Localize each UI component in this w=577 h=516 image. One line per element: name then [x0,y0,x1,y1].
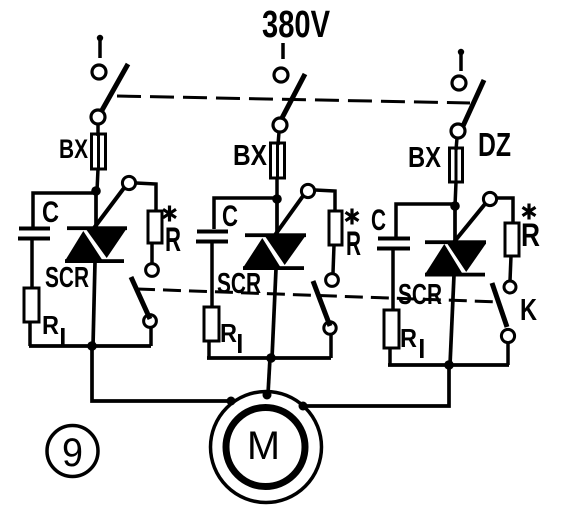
svg-text:BX: BX [233,140,268,172]
knife switch hinge contact (phase 3) [451,124,465,138]
wire: capacitor to resistor Rl (phase 2) [210,243,214,307]
svg-text:DZ: DZ [478,126,511,163]
svg-text:R: R [42,310,59,340]
asterisk mark (phase 1) [163,206,176,222]
svg-text:R: R [521,217,540,253]
svg-text:K: K [520,292,537,327]
fuse BX (phase 2) [271,143,285,178]
fuse BX (phase 1) [92,134,106,169]
wire: capacitor to resistor Rl (phase 1) [30,240,34,288]
wire: switch to bottom rail (phase 2) [329,334,333,358]
knife switch fixed contact (phase 2) [274,68,288,82]
wire: switch to bottom rail (phase 3) [506,343,510,365]
label Rl (phase 2) [220,318,242,353]
resistor R* (phase 1) [148,211,162,243]
svg-text:C: C [42,196,59,229]
wire: switch to fuse (phase 3) [456,138,457,150]
switch hinge circle K (phase 3) [501,329,514,342]
asterisk mark (phase 2) [346,209,359,225]
switch blade (phase 1 gate switch) [131,277,150,319]
wire: resistor R to contact (phase 3) [510,256,511,281]
svg-text:R: R [165,221,181,259]
gate terminal circle (phase 1) [122,176,135,189]
switch hinge circle (phase 1 gate switch) [144,315,157,328]
label Rl (phase 3) [400,323,424,358]
resistor R* (phase 3) [505,223,519,256]
node B2 junction dot (phase 2) [266,353,276,363]
resistor R* (phase 2) [329,211,342,245]
triac SCR (phase 2) [243,199,306,358]
supply stub terminal dot (phase 1) [97,35,103,41]
node B3 junction dot (phase 3) [444,360,454,370]
wire: resistor Rl to bottom rail (phase 1) [28,322,32,346]
wire: node A3 to snubber branch (phase 3) [396,204,455,237]
gate wire (phase 2) [275,196,303,235]
svg-text:BX: BX [59,134,88,164]
svg-text:SCR: SCR [217,268,261,300]
label Rl (phase 1) [42,310,65,347]
wire: switch to fuse (phase 2) [278,132,279,145]
capacitor C (phase 3) [377,237,410,251]
wire: node B3 down to motor (phase 3) [303,365,449,406]
svg-text:R: R [400,323,417,353]
switch upper contact circle (phase 2) [326,274,339,287]
knife switch hinge contact (phase 2) [273,118,287,132]
svg-text:C: C [371,204,386,237]
gate terminal circle (phase 2) [301,184,314,197]
trip-link dashed line (top, couples the three knife switches) [117,96,470,103]
knife switch hinge contact (phase 1) [91,110,105,124]
svg-text:M: M [247,424,280,468]
knife switch blade (phase 3) [463,80,484,126]
wire: node A1 to snubber branch (phase 1) [33,193,96,227]
motor M inner circle [226,408,305,487]
triac SCR (phase 3) [425,206,486,365]
wire: gate circle to resistor R (phase 3) [497,198,513,223]
wire: node A2 to snubber branch (phase 2) [214,198,277,229]
capacitor C (phase 2) [196,230,228,244]
svg-text:9: 9 [62,431,83,475]
fuse BX (phase 3) [450,148,463,182]
svg-text:R: R [346,225,361,263]
node A3 junction dot (phase 3) [450,201,460,211]
asterisk mark (phase 3) [523,204,536,220]
wire: fuse to node A2 (phase 2) [275,178,279,199]
wire: resistor R to contact (phase 1) [150,243,154,264]
wire: resistor Rl to bottom rail (phase 2) [207,341,211,358]
knife switch blade (phase 1) [101,64,128,112]
wire: switch to fuse (phase 1) [96,124,100,136]
motor terminal dot (phase 3) [299,402,308,411]
knife switch blade (phase 2) [282,74,305,118]
svg-text:C: C [222,200,238,233]
svg-text:SCR: SCR [398,279,442,311]
motor terminal dot (phase 1) [227,397,236,406]
switch blade K (phase 3) [492,283,507,327]
knife switch fixed contact (phase 1) [92,65,106,79]
wire: resistor Rl to bottom rail (phase 3) [388,348,392,365]
node A1 junction dot (phase 1) [91,186,101,196]
triac SCR (phase 1) [65,191,127,346]
trip-link dashed line (bottom, couples the three K switches) [137,289,500,302]
gate wire (phase 1) [94,188,124,228]
svg-text:380V: 380V [262,4,330,46]
svg-text:BX: BX [408,142,442,174]
wire: supply stub (phase 3) [459,52,463,71]
wire: capacitor to resistor Rl (phase 3) [391,250,395,310]
wire: bottom rail (phase 1) [29,344,151,348]
wire: bottom rail (phase 2) [207,356,331,360]
switch hinge circle (phase 2 gate switch) [324,322,336,334]
node B1 junction dot (phase 1) [87,341,97,351]
knife switch fixed contact (phase 3) [452,76,466,90]
supply stub terminal dot (phase 3) [458,49,464,55]
motor terminal dot (phase 2) [263,391,272,400]
wire: fuse to node A3 (phase 3) [455,182,456,206]
wire: bottom rail (phase 3) [388,363,509,367]
motor M outer circle [211,392,322,503]
resistor Rl (phase 1) [24,288,39,322]
node A2 junction dot (phase 2) [272,194,282,204]
resistor Rl (phase 3) [384,310,399,348]
wire: gate circle to resistor R (phase 1) [136,183,156,211]
wire: resistor R to contact (phase 2) [333,245,334,273]
svg-text:R: R [220,318,237,348]
wire: supply stub (phase 1) [98,38,102,58]
wire: fuse to node A1 (phase 1) [97,169,98,191]
switch upper contact circle (phase 1) [146,264,159,277]
switch blade (phase 2 gate switch) [313,281,330,326]
svg-text:SCR: SCR [45,262,89,294]
wire: supply stub (phase 2) [281,43,285,59]
gate wire (phase 3) [454,204,485,242]
capacitor C (phase 1) [18,227,50,241]
wire: node B1 down to motor (phase 1) [92,346,231,401]
wire: node B2 down to motor (phase 2) [268,358,270,394]
figure number circle 9 [47,426,98,477]
gate terminal circle (phase 3) [483,192,496,205]
resistor Rl (phase 2) [204,307,219,341]
switch upper contact circle (phase 3) [504,281,516,293]
wire: switch to bottom rail (phase 1) [149,327,153,346]
wire: gate circle to resistor R (phase 2) [315,190,335,211]
